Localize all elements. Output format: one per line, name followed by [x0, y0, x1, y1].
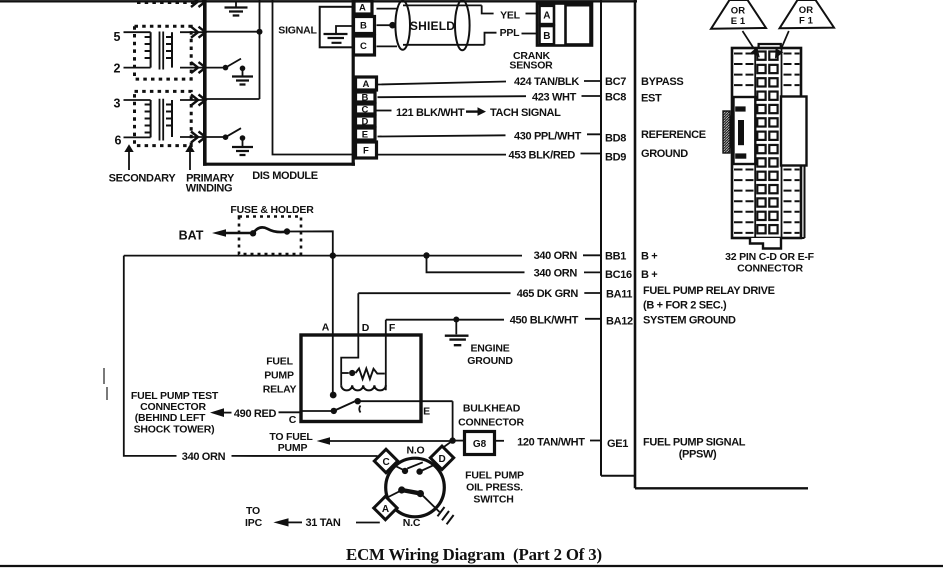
svg-text:A: A — [359, 3, 366, 14]
svg-text:TACH SIGNAL: TACH SIGNAL — [490, 107, 561, 119]
svg-text:BC16: BC16 — [605, 269, 632, 281]
svg-text:B: B — [543, 31, 550, 42]
svg-text:CONNECTOR: CONNECTOR — [737, 263, 803, 275]
svg-text:F: F — [389, 322, 396, 334]
svg-text:SWITCH: SWITCH — [473, 494, 513, 506]
svg-text:(PPSW): (PPSW) — [679, 448, 717, 460]
svg-text:ENGINE: ENGINE — [470, 342, 509, 354]
svg-text:REFERENCE: REFERENCE — [641, 129, 706, 141]
svg-text:3: 3 — [114, 97, 121, 111]
svg-text:BULKHEAD: BULKHEAD — [463, 402, 521, 414]
svg-text:E 1: E 1 — [731, 16, 746, 27]
svg-text:SYSTEM GROUND: SYSTEM GROUND — [643, 315, 736, 327]
svg-text:430 PPL/WHT: 430 PPL/WHT — [514, 131, 582, 143]
svg-text:E: E — [362, 130, 368, 141]
svg-text:32 PIN C-D OR E-F: 32 PIN C-D OR E-F — [725, 251, 815, 263]
svg-text:B: B — [360, 21, 367, 32]
svg-text:F 1: F 1 — [799, 16, 814, 27]
svg-text:GE1: GE1 — [607, 438, 628, 450]
svg-text:BD8: BD8 — [605, 132, 626, 144]
svg-text:C: C — [382, 457, 389, 468]
svg-text:BA11: BA11 — [606, 288, 632, 300]
svg-text:FUEL PUMP: FUEL PUMP — [465, 470, 524, 482]
svg-text:N.C: N.C — [403, 517, 421, 529]
svg-text:BB1: BB1 — [605, 251, 626, 263]
svg-text:N.O: N.O — [406, 444, 424, 456]
svg-text:WINDING: WINDING — [186, 183, 232, 195]
svg-text:450 BLK/WHT: 450 BLK/WHT — [510, 314, 579, 326]
svg-text:(B + FOR 2 SEC.): (B + FOR 2 SEC.) — [643, 300, 727, 312]
svg-text:DIS MODULE: DIS MODULE — [252, 170, 318, 182]
svg-text:A: A — [322, 322, 330, 334]
svg-text:CONNECTOR: CONNECTOR — [458, 416, 524, 428]
svg-text:TO: TO — [246, 505, 260, 517]
svg-text:BD9: BD9 — [605, 151, 626, 163]
svg-text:2: 2 — [114, 62, 121, 76]
svg-text:453 BLK/RED: 453 BLK/RED — [509, 150, 576, 162]
svg-text:BYPASS: BYPASS — [641, 76, 683, 88]
svg-text:IPC: IPC — [245, 517, 263, 529]
svg-text:OR: OR — [731, 6, 745, 17]
svg-text:FUEL PUMP SIGNAL: FUEL PUMP SIGNAL — [643, 436, 746, 448]
svg-text:BA12: BA12 — [606, 316, 633, 328]
svg-text:(BEHIND LEFT: (BEHIND LEFT — [135, 412, 206, 424]
svg-text:C: C — [360, 41, 367, 52]
svg-text:E: E — [423, 406, 430, 418]
svg-text:120 TAN/WHT: 120 TAN/WHT — [517, 436, 585, 448]
svg-text:SIGNAL: SIGNAL — [278, 25, 317, 37]
svg-text:G8: G8 — [473, 439, 487, 450]
svg-text:A: A — [363, 79, 370, 90]
svg-text:C: C — [362, 104, 369, 115]
svg-text:EST: EST — [641, 93, 662, 105]
svg-text:A: A — [382, 504, 389, 515]
svg-text:F: F — [363, 146, 369, 157]
svg-text:BAT: BAT — [179, 229, 204, 243]
svg-text:D: D — [438, 454, 445, 465]
svg-text:C: C — [289, 414, 297, 426]
svg-text:SHIELD: SHIELD — [410, 19, 455, 33]
svg-text:BC7: BC7 — [605, 76, 626, 88]
svg-text:B +: B + — [641, 251, 657, 263]
svg-text:PUMP: PUMP — [264, 370, 294, 382]
svg-text:424 TAN/BLK: 424 TAN/BLK — [514, 76, 579, 88]
svg-text:B +: B + — [641, 269, 657, 281]
svg-text:5: 5 — [114, 30, 121, 44]
svg-text:PUMP: PUMP — [278, 442, 308, 454]
svg-text:465 DK GRN: 465 DK GRN — [517, 288, 579, 300]
svg-text:6: 6 — [115, 134, 122, 148]
svg-text:YEL: YEL — [500, 10, 521, 22]
svg-text:PPL: PPL — [500, 27, 521, 39]
svg-text:340 ORN: 340 ORN — [182, 451, 226, 463]
svg-text:FUSE & HOLDER: FUSE & HOLDER — [230, 204, 314, 216]
svg-text:ECM Wiring Diagram (Part 2 Of: ECM Wiring Diagram (Part 2 Of 3) — [346, 545, 602, 564]
svg-text:31 TAN: 31 TAN — [306, 517, 341, 529]
svg-text:FUEL PUMP RELAY DRIVE: FUEL PUMP RELAY DRIVE — [643, 285, 775, 297]
svg-text:GROUND: GROUND — [641, 148, 688, 160]
svg-text:FUEL: FUEL — [266, 356, 293, 368]
svg-text:OIL PRESS.: OIL PRESS. — [466, 482, 523, 494]
svg-text:423 WHT: 423 WHT — [532, 91, 577, 103]
svg-text:A: A — [543, 11, 550, 22]
svg-text:D: D — [362, 322, 370, 334]
svg-text:SHOCK TOWER): SHOCK TOWER) — [134, 423, 215, 435]
svg-text:BC8: BC8 — [605, 91, 626, 103]
svg-text:340 ORN: 340 ORN — [534, 250, 578, 262]
svg-text:121 BLK/WHT: 121 BLK/WHT — [396, 107, 465, 119]
svg-text:SENSOR: SENSOR — [509, 59, 553, 71]
svg-text:GROUND: GROUND — [467, 355, 513, 367]
svg-text:D: D — [362, 116, 369, 127]
svg-text:B: B — [362, 92, 369, 103]
svg-text:OR: OR — [799, 5, 813, 16]
svg-text:SECONDARY: SECONDARY — [109, 173, 177, 185]
svg-text:490 RED: 490 RED — [234, 408, 277, 420]
svg-text:340 ORN: 340 ORN — [534, 268, 578, 280]
svg-text:RELAY: RELAY — [263, 384, 297, 396]
